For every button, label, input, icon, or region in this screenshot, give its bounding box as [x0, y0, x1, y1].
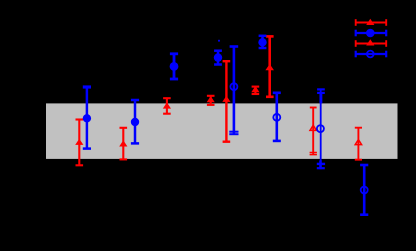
stray blue dot above H [218, 40, 220, 42]
marker M: blue filled circle [258, 38, 266, 46]
errorbar P (blue, double top cap, arrow bottom) [317, 89, 325, 169]
errorbar Q (red, open triangle) [355, 128, 362, 160]
marker I: red filled triangle [222, 96, 230, 102]
errorbar S (blue) [360, 165, 368, 215]
marker K: red filled triangle [251, 86, 259, 92]
errorbar I (red) [223, 61, 231, 142]
legend row 1: red errorbar line [356, 19, 387, 26]
errorbar E (red) [163, 98, 171, 114]
marker N: blue open circle [273, 114, 280, 121]
marker A: red filled triangle [75, 139, 83, 145]
errorbar B (blue) [83, 87, 91, 149]
marker P: blue open circle [317, 125, 324, 132]
marker L: red filled triangle [265, 64, 274, 70]
legend row 1 marker: red filled triangle [366, 19, 374, 25]
legend row 3: red errorbar line [356, 40, 387, 47]
marker C: red filled triangle [119, 140, 127, 146]
errorbar C (red) [120, 128, 128, 160]
errorbar O (red, open triangle, double bottom cap) [310, 108, 317, 155]
errorbar F (blue) [170, 54, 178, 79]
legend row 2 marker: blue filled circle [366, 29, 375, 38]
legend row 4: blue errorbar line [356, 51, 387, 58]
errorbar H (blue) [214, 51, 222, 65]
errorbar J (blue, double bottom cap) [229, 47, 238, 135]
errorbar N (blue) [273, 93, 281, 141]
legend row 3 marker: red filled triangle [366, 39, 374, 45]
errorbar D (blue) [131, 100, 139, 143]
marker E: red filled triangle [163, 102, 171, 108]
legend row 2: blue errorbar line [356, 30, 387, 37]
marker D: blue filled circle [131, 118, 139, 126]
marker G: red filled triangle [207, 96, 215, 102]
errorbar G (red) [207, 96, 215, 105]
marker S: blue open circle [361, 187, 368, 194]
errorbar M (blue) [259, 36, 267, 48]
marker J: blue open circle [230, 83, 237, 90]
marker O: red open triangle [310, 125, 316, 130]
gray band [46, 103, 398, 158]
errorbar L (red) [266, 36, 274, 96]
marker H: blue filled circle [214, 53, 222, 61]
legend row 4 marker: blue open circle [367, 51, 374, 58]
marker B: blue filled circle [83, 114, 91, 122]
marker F: blue filled circle [170, 62, 179, 71]
errorbar K (red, compact) [252, 87, 260, 94]
marker Q: red open triangle [355, 140, 361, 145]
errorbar A (red) [76, 120, 84, 166]
